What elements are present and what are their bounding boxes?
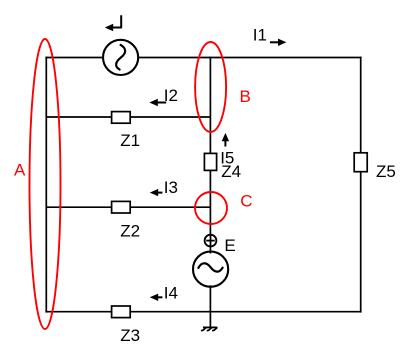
- wire middle vertical (Z4 to plus): [209, 170, 211, 235]
- svg-text:Z4: Z4: [221, 162, 241, 181]
- wire top-right segment: [138, 57, 361, 59]
- wire middle vertical (plus to E): [209, 246, 211, 254]
- wire row2 (Z1 branch): [46, 116, 210, 118]
- node C (red loop circle): [195, 192, 227, 224]
- wire middle vertical upper (top to Z4): [209, 57, 211, 154]
- svg-text:I2: I2: [164, 86, 178, 105]
- wire right vertical lower: [360, 172, 362, 313]
- source J (AC current source top): [103, 40, 138, 75]
- arrow I3: [150, 189, 163, 196]
- node plus (polarity mark of E): [205, 234, 217, 246]
- arrow I5: [222, 133, 229, 147]
- svg-text:A: A: [14, 161, 26, 180]
- impedance Z1: [112, 112, 131, 124]
- svg-text:E: E: [224, 236, 235, 255]
- wire left vertical: [45, 57, 47, 313]
- node A (red loop ellipse): [30, 39, 61, 329]
- svg-text:Z5: Z5: [376, 162, 396, 181]
- wire middle vertical (E to bottom): [209, 285, 211, 311]
- wire top-left segment: [45, 57, 103, 59]
- ground: [201, 327, 217, 330]
- svg-text:Z3: Z3: [120, 326, 140, 345]
- arrow J (hook arrow above source): [105, 15, 121, 31]
- svg-text:I3: I3: [164, 178, 178, 197]
- source E (AC voltage source): [193, 252, 228, 287]
- wire ground stub: [209, 312, 211, 328]
- svg-text:I4: I4: [164, 283, 178, 302]
- wire right vertical upper: [360, 57, 362, 153]
- impedance Z4: [204, 153, 216, 170]
- arrow I4: [150, 294, 163, 301]
- svg-text:C: C: [240, 192, 252, 211]
- node B (red loop ellipse): [195, 42, 226, 132]
- svg-text:I1: I1: [253, 26, 267, 45]
- arrow I1: [270, 39, 287, 46]
- svg-text:Z2: Z2: [120, 222, 140, 241]
- impedance Z3: [112, 306, 131, 318]
- impedance Z2: [112, 201, 131, 213]
- wire row3 (Z2 branch): [46, 206, 210, 208]
- arrow I2: [149, 99, 166, 106]
- svg-text:B: B: [240, 87, 251, 106]
- svg-text:Z1: Z1: [120, 131, 140, 150]
- impedance Z5: [354, 153, 367, 172]
- wire bottom: [45, 311, 361, 313]
